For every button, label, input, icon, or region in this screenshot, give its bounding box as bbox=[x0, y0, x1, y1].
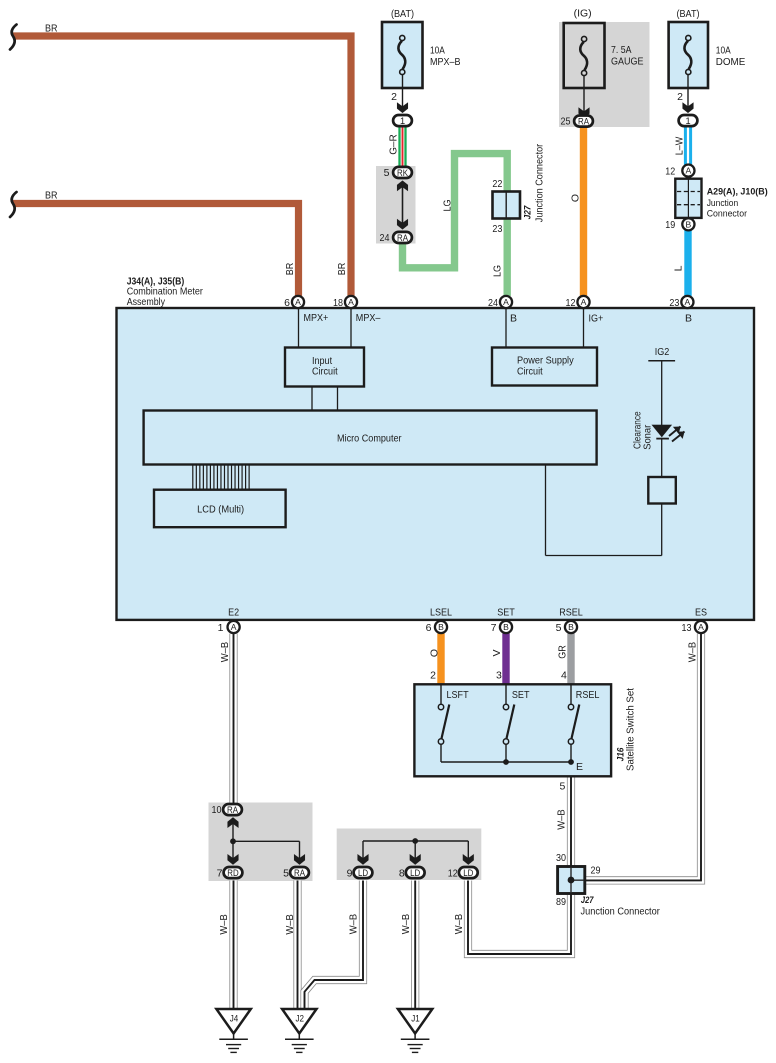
svg-text:30: 30 bbox=[556, 852, 566, 864]
svg-text:5: 5 bbox=[384, 167, 390, 179]
svg-text:LD: LD bbox=[358, 868, 368, 878]
svg-text:B: B bbox=[568, 622, 574, 632]
svg-text:J4: J4 bbox=[230, 1013, 239, 1024]
svg-text:12: 12 bbox=[665, 165, 675, 177]
svg-text:LD: LD bbox=[410, 868, 420, 878]
svg-text:MPX–: MPX– bbox=[356, 312, 381, 324]
svg-text:B: B bbox=[503, 622, 509, 632]
svg-text:2: 2 bbox=[430, 670, 436, 682]
svg-text:W–B: W–B bbox=[284, 914, 296, 935]
svg-text:E: E bbox=[576, 761, 583, 773]
svg-text:7. 5A: 7. 5A bbox=[611, 44, 631, 56]
svg-text:Connector: Connector bbox=[707, 208, 748, 219]
svg-text:6: 6 bbox=[284, 297, 290, 309]
svg-text:V: V bbox=[491, 649, 503, 656]
svg-text:RD: RD bbox=[227, 868, 239, 878]
svg-text:LSFT: LSFT bbox=[447, 689, 470, 701]
svg-text:8: 8 bbox=[399, 868, 405, 880]
svg-text:12: 12 bbox=[566, 297, 576, 309]
svg-text:O: O bbox=[569, 194, 581, 202]
svg-text:B: B bbox=[438, 622, 444, 632]
svg-text:RA: RA bbox=[578, 116, 590, 126]
svg-text:A: A bbox=[231, 622, 237, 632]
svg-text:22: 22 bbox=[492, 178, 502, 190]
svg-text:W–B: W–B bbox=[555, 809, 567, 830]
svg-text:LCD (Multi): LCD (Multi) bbox=[197, 503, 244, 515]
svg-text:B: B bbox=[685, 312, 692, 324]
svg-text:J27: J27 bbox=[523, 205, 534, 219]
svg-text:RA: RA bbox=[227, 805, 239, 815]
svg-text:A: A bbox=[698, 622, 704, 632]
svg-text:1: 1 bbox=[400, 116, 405, 126]
svg-text:29: 29 bbox=[591, 865, 601, 877]
svg-text:W–B: W–B bbox=[400, 914, 412, 935]
svg-text:BR: BR bbox=[336, 262, 348, 275]
svg-text:LG: LG bbox=[491, 265, 503, 277]
svg-text:23: 23 bbox=[669, 297, 679, 309]
svg-text:B: B bbox=[510, 312, 517, 324]
svg-text:W–B: W–B bbox=[219, 642, 231, 663]
svg-text:10A: 10A bbox=[716, 45, 731, 57]
svg-text:MPX+: MPX+ bbox=[304, 312, 329, 324]
svg-text:Satellite Switch Set: Satellite Switch Set bbox=[624, 688, 636, 771]
svg-text:RA: RA bbox=[294, 868, 306, 878]
svg-text:2: 2 bbox=[677, 91, 683, 103]
svg-text:LD: LD bbox=[463, 868, 473, 878]
svg-text:7: 7 bbox=[491, 622, 497, 634]
svg-text:5: 5 bbox=[556, 622, 562, 634]
svg-text:G–R: G–R bbox=[387, 134, 399, 155]
svg-text:Junction Connector: Junction Connector bbox=[533, 143, 545, 222]
svg-text:Circuit: Circuit bbox=[517, 365, 543, 377]
svg-text:RSEL: RSEL bbox=[559, 607, 583, 619]
svg-text:SET: SET bbox=[512, 689, 530, 701]
svg-text:J27: J27 bbox=[581, 895, 594, 906]
svg-text:5: 5 bbox=[560, 781, 566, 793]
svg-text:Circuit: Circuit bbox=[312, 366, 338, 378]
svg-text:2: 2 bbox=[391, 91, 397, 103]
svg-text:RA: RA bbox=[397, 233, 409, 243]
svg-text:A29(A), J10(B): A29(A), J10(B) bbox=[707, 186, 768, 197]
svg-text:19: 19 bbox=[665, 219, 675, 231]
svg-text:J2: J2 bbox=[295, 1013, 304, 1024]
svg-text:J1: J1 bbox=[411, 1013, 420, 1024]
svg-text:5: 5 bbox=[283, 868, 289, 880]
svg-text:A: A bbox=[295, 297, 301, 307]
svg-text:1: 1 bbox=[218, 622, 224, 634]
svg-text:3: 3 bbox=[496, 670, 502, 682]
svg-text:DOME: DOME bbox=[716, 56, 746, 68]
svg-text:ES: ES bbox=[695, 607, 707, 619]
svg-text:A: A bbox=[348, 297, 354, 307]
svg-text:1: 1 bbox=[685, 116, 690, 126]
svg-text:24: 24 bbox=[488, 297, 498, 309]
svg-text:A: A bbox=[581, 297, 587, 307]
svg-text:W–B: W–B bbox=[348, 914, 360, 935]
svg-text:Sonar: Sonar bbox=[642, 424, 653, 450]
svg-text:10A: 10A bbox=[430, 45, 445, 57]
svg-text:L–W: L–W bbox=[674, 137, 686, 156]
svg-text:7: 7 bbox=[217, 868, 223, 880]
svg-text:E2: E2 bbox=[228, 607, 239, 619]
svg-text:Micro Computer: Micro Computer bbox=[337, 433, 402, 445]
svg-text:4: 4 bbox=[561, 670, 567, 682]
svg-text:IG+: IG+ bbox=[589, 312, 604, 324]
svg-text:9: 9 bbox=[347, 868, 353, 880]
svg-text:GAUGE: GAUGE bbox=[611, 56, 644, 68]
svg-text:RSEL: RSEL bbox=[576, 689, 600, 701]
svg-text:W–B: W–B bbox=[687, 642, 699, 663]
svg-text:BR: BR bbox=[45, 23, 58, 35]
svg-text:(BAT): (BAT) bbox=[391, 8, 414, 20]
svg-text:25: 25 bbox=[561, 116, 571, 128]
svg-text:O: O bbox=[428, 649, 440, 657]
svg-text:89: 89 bbox=[556, 896, 566, 908]
svg-text:18: 18 bbox=[333, 297, 343, 309]
svg-text:SET: SET bbox=[497, 607, 515, 619]
svg-text:13: 13 bbox=[682, 622, 692, 634]
svg-text:IG2: IG2 bbox=[655, 346, 670, 358]
svg-text:LSEL: LSEL bbox=[430, 607, 452, 619]
svg-text:(BAT): (BAT) bbox=[676, 8, 699, 20]
svg-text:(IG): (IG) bbox=[574, 8, 592, 20]
svg-text:24: 24 bbox=[380, 232, 390, 244]
svg-text:Assembly: Assembly bbox=[127, 296, 166, 308]
svg-text:A: A bbox=[685, 297, 691, 307]
svg-text:A: A bbox=[503, 297, 509, 307]
svg-text:LG: LG bbox=[441, 200, 453, 212]
svg-text:12: 12 bbox=[448, 868, 458, 880]
svg-text:W–B: W–B bbox=[218, 914, 230, 935]
svg-text:10: 10 bbox=[212, 804, 222, 816]
svg-text:RK: RK bbox=[397, 168, 409, 178]
svg-text:W–B: W–B bbox=[453, 914, 465, 935]
svg-text:A: A bbox=[686, 166, 692, 176]
svg-text:B: B bbox=[686, 219, 692, 229]
svg-text:6: 6 bbox=[426, 622, 432, 634]
svg-text:Junction Connector: Junction Connector bbox=[581, 906, 661, 918]
svg-text:BR: BR bbox=[284, 262, 296, 275]
svg-text:23: 23 bbox=[492, 223, 502, 235]
svg-text:BR: BR bbox=[45, 190, 58, 202]
svg-text:L: L bbox=[673, 265, 685, 271]
svg-text:MPX–B: MPX–B bbox=[430, 56, 461, 68]
svg-text:GR: GR bbox=[556, 645, 568, 659]
